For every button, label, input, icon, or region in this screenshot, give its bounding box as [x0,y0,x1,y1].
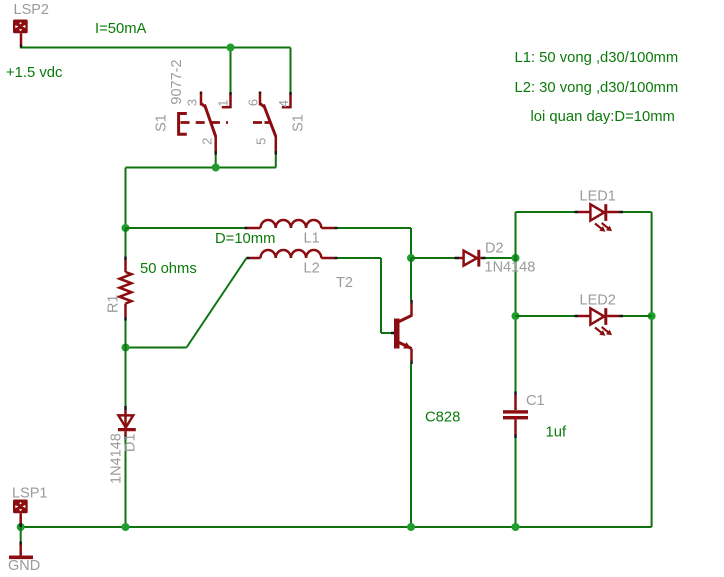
wire D2 left [411,257,455,259]
svg-text:1N4148: 1N4148 [109,433,125,484]
wire junction to D1 [125,348,127,407]
pin tip D1 bottom [124,436,127,440]
ground symbol [9,545,33,558]
inductor L2 [250,250,335,258]
node junction C1 bottom [512,523,520,531]
svg-text:L2: L2 [304,261,320,277]
wire bottom rail [21,526,652,528]
wire LED2 branch right [623,315,652,317]
node junction L1 row [122,224,130,232]
node junction top [227,44,235,52]
wire LED1 branch left [516,211,575,213]
wire diagonal to L2 [187,258,247,348]
switch linkage dashed line left [181,121,229,124]
svg-text:T2: T2 [336,275,353,291]
pin tip L2 left [247,257,250,260]
svg-text:50 ohms: 50 ohms [140,261,197,277]
node junction LED2 left [512,312,520,320]
pin tip L1 left [245,227,248,230]
switch S1 pole B pin 4 [282,95,291,108]
wire L1 to collector rail [338,227,412,229]
diode D1 [118,410,136,436]
pin tip 5 [275,151,278,155]
svg-text:5: 5 [254,138,269,145]
wire LED1 branch right [623,211,652,213]
wire L2 to base corner [338,257,382,259]
switch S1 pole B lever [264,105,276,137]
svg-text:S1: S1 [291,114,307,132]
node junction D2 right [512,254,520,262]
switch S1 pole A lever [205,105,216,137]
diode D2 [459,250,482,267]
svg-text:LSP1: LSP1 [12,486,47,502]
switch S1 pole A pin 3 [201,94,206,107]
svg-text:LED1: LED1 [580,188,616,204]
node junction LED2 right [648,312,656,320]
pin tip R1 bottom [124,317,127,321]
pin tip LED2 right [620,315,624,318]
svg-text:4: 4 [276,100,291,107]
svg-text:1: 1 [216,100,231,107]
svg-text:6: 6 [246,99,261,106]
svg-text:loi quan day:D=10mm: loi quan day:D=10mm [531,109,675,125]
solder pad LSP2 [13,20,28,45]
svg-text:C828: C828 [425,409,460,425]
svg-text:+1.5 vdc: +1.5 vdc [6,65,63,81]
transistor T2 [394,304,412,361]
wire pin2 drop [215,155,217,168]
pin tip L1 right [335,227,338,230]
node junction D2 left [407,254,415,262]
LED LED1 [578,204,620,232]
wire D1 to bottom rail [125,439,127,527]
svg-text:GND: GND [8,558,40,574]
svg-text:D=10mm: D=10mm [215,231,275,247]
wire below switch horizontal [126,167,276,169]
LED LED2 [578,308,620,336]
pin tip LSP1 [19,524,22,528]
wire D2 to LED rail [486,257,516,259]
inductor L1 [248,220,335,228]
wire right rail [651,212,653,527]
svg-text:D1: D1 [123,433,139,452]
pin tip R1 top [124,257,127,261]
switch S1 pole B pin 5 [275,136,278,151]
pin tip LED2 left [575,315,579,318]
capacitor C1 [503,395,528,435]
svg-text:LED2: LED2 [580,292,616,308]
wire LED2 branch left [516,315,575,317]
pin tip D2 right [482,257,486,260]
wire C1 to bottom rail [515,438,517,527]
svg-text:L1: 50 vong ,d30/100mm: L1: 50 vong ,d30/100mm [515,50,679,66]
pin tip 4 [289,92,292,95]
wire GND drop [20,527,22,542]
pin tip base [391,332,395,335]
wire R1 top [125,228,127,257]
svg-text:9077-2: 9077-2 [169,59,185,104]
pin tip collector [410,300,413,304]
pin tip GND [19,542,22,545]
resistor R1 [120,260,132,317]
wire collector rail down [410,228,412,258]
svg-text:1N4148: 1N4148 [485,260,536,276]
wire left vertical to L1 row [125,168,127,229]
pin tip L2 right [335,257,338,260]
node junction R1 bottom [122,344,130,352]
pin tip LSP2 [20,45,23,48]
node junction emitter bottom [407,523,415,531]
wire drop to pin 4 [290,48,292,93]
switch S1 pole B pin 6 [260,94,265,107]
pin tip C1 top [514,392,517,396]
svg-text:3: 3 [185,99,200,106]
node junction LSP1 [17,523,25,531]
switch S1 pole A pin 2 [214,136,217,151]
svg-text:LSP2: LSP2 [14,2,49,18]
switch actuator bracket [179,114,187,135]
svg-text:R1: R1 [106,294,122,313]
wire emitter to bottom rail [410,364,412,527]
pin tip LED1 left [575,211,579,214]
node junction D1 bottom [122,523,130,531]
switch S1 pole A pin 1 [222,95,231,108]
svg-text:D2: D2 [485,241,504,257]
wire junction to diagonal [126,347,187,349]
pin tip LED1 right [620,211,624,214]
wire top horizontal from LSP2 to switch [20,47,291,49]
pin tip D1 top [124,406,127,410]
wire pin5 drop [275,155,277,168]
pin tip 1 [229,92,232,95]
svg-text:L1: L1 [304,231,320,247]
wire LED left rail top [515,212,517,392]
wire to L1 [126,227,245,229]
wire base vertical [380,258,382,333]
wire drop to pin 1 [230,48,232,93]
svg-text:L2: 30 vong ,d30/100mm: L2: 30 vong ,d30/100mm [515,80,679,96]
pin tip 6 [259,92,262,95]
wire base horizontal [381,332,391,334]
pin tip 2 [214,151,217,155]
switch linkage dashed line right [253,121,271,124]
svg-text:S1: S1 [153,114,169,132]
pin tip D2 left [455,257,460,260]
svg-text:C1: C1 [526,393,545,409]
pin tip emitter [410,361,413,365]
solder pad LSP1 [13,500,28,524]
node junction below switch [212,164,220,172]
svg-text:I=50mA: I=50mA [95,21,147,37]
pin tip 3 [200,92,203,95]
wire collector drop [410,258,412,300]
svg-text:2: 2 [200,138,215,145]
svg-text:1uf: 1uf [546,425,567,441]
wire R1 to junction [125,321,127,348]
pin tip C1 bottom [514,435,517,439]
